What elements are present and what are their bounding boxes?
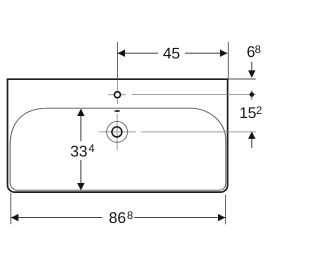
faucet hole centerline horizontal bbox=[108, 94, 125, 96]
dimension 86.8: right arrowhead bbox=[218, 214, 225, 221]
dimension 45: right extension line bbox=[227, 42, 229, 79]
drain centerline horizontal bbox=[99, 131, 136, 133]
dimension 86.8: left arrowhead bbox=[11, 214, 18, 221]
washbasin outer outline bbox=[8, 79, 228, 192]
overflow slot bbox=[114, 110, 120, 112]
faucet hole bbox=[114, 92, 120, 98]
dimension 15.2: vertical stub through dot bbox=[251, 90, 253, 99]
drain centerline vertical bbox=[116, 114, 118, 151]
dimension 86.8: line right segment bbox=[134, 217, 225, 219]
dimension 45: line left segment bbox=[118, 52, 158, 54]
dimension 33.4: down arrowhead bbox=[77, 183, 84, 190]
dimension 33.4: up arrowhead bbox=[77, 109, 84, 116]
top edge extension line to right bbox=[229, 78, 256, 80]
dimension 45: left arrowhead bbox=[118, 50, 125, 57]
dimension 15.2: arrow tail line bbox=[251, 139, 253, 148]
dimension 86.8: right extension line bbox=[225, 195, 227, 225]
drain hole inner circle bbox=[112, 127, 122, 137]
dimension 15.2: dot marker at faucet line bbox=[250, 92, 255, 97]
faucet hole centerline vertical bbox=[116, 80, 118, 104]
dimension 45: left extension line bbox=[116, 42, 118, 80]
drain recess outer circle bbox=[107, 121, 128, 142]
dimension 33.4: line upper segment bbox=[80, 116, 82, 141]
dimension 45: right arrowhead bbox=[220, 50, 227, 57]
dimension 6.8: leader line bbox=[251, 62, 253, 71]
drain centerline extension to right bbox=[141, 131, 256, 133]
faucet centerline extension to right bbox=[132, 94, 256, 96]
dimension 6.8: down arrowhead bbox=[248, 70, 255, 77]
dimension 86.8: line left segment bbox=[11, 217, 102, 219]
basin bowl inner outline bbox=[10, 108, 226, 190]
svg-text:45: 45 bbox=[163, 46, 180, 63]
dimension 15.2: up arrowhead bbox=[248, 132, 255, 139]
dimension 86.8: left extension line bbox=[10, 193, 12, 224]
dimension 33.4: line lower segment bbox=[80, 160, 82, 183]
dimension 45: line right segment bbox=[185, 52, 227, 54]
